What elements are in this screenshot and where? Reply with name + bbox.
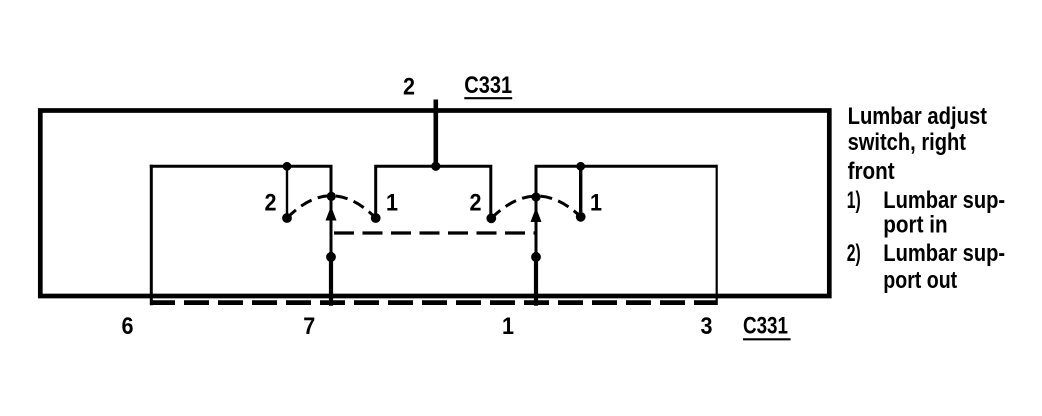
svg-text:2: 2: [403, 73, 415, 100]
svg-text:C331: C331: [743, 312, 788, 339]
pin 7 wire lower stub (thick): [329, 252, 333, 306]
wire segment A: base top-left to wiper 1, turning down as wiper 1 wire (pin 7): [150, 166, 331, 253]
connector C331 interface line (dashed bottom of base): [150, 300, 717, 305]
pin 1 wire lower stub (thick): [534, 252, 538, 306]
underline of C331 (top): [464, 97, 512, 99]
svg-text:2: 2: [265, 189, 277, 216]
junction dot: pin 2 wire on segment B: [431, 162, 440, 171]
contact 2 terminal dot (section 1): [282, 213, 292, 223]
svg-text:Lumbar adjust: Lumbar adjust: [848, 102, 987, 129]
svg-text:front: front: [848, 157, 895, 184]
svg-text:Lumbar sup-: Lumbar sup-: [883, 239, 1005, 266]
wire segment B: contact 1 (section 1) to contact 2 (section 2): [376, 166, 491, 214]
contact 1 terminal dot (section 2): [576, 212, 586, 222]
svg-text:6: 6: [122, 312, 134, 339]
contact 2 terminal dot (section 2): [486, 213, 496, 223]
svg-text:3: 3: [701, 312, 713, 339]
contact 2 stub (section 1): [286, 166, 288, 213]
switch base left edge / pin 6 wire: [150, 165, 153, 305]
svg-text:1: 1: [386, 189, 398, 216]
underline of C331 (bottom): [743, 338, 791, 340]
wiper contact arc (section 2, dashed): [491, 196, 580, 218]
wiper arrow (section 1): [326, 206, 337, 221]
svg-text:2): 2): [847, 239, 861, 266]
svg-text:1: 1: [590, 189, 602, 216]
svg-text:1: 1: [502, 312, 514, 339]
junction dot on pin 1 wire: [531, 252, 541, 262]
mechanical link between wipers (dashed): [334, 231, 536, 234]
wiper pivot dot (section 2): [531, 192, 540, 201]
wire segment C: wiper 2 top to base top-right, wiper 2 wire down (pin 1): [536, 166, 717, 253]
svg-text:C331: C331: [464, 71, 512, 98]
switch base right edge / pin 3 wire: [716, 165, 718, 305]
svg-text:port out: port out: [883, 266, 957, 293]
junction dot on pin 7 wire: [326, 252, 336, 262]
svg-text:port in: port in: [883, 210, 947, 237]
switch housing box (Lumbar adjust switch, right front): [40, 111, 829, 297]
svg-text:switch, right: switch, right: [848, 128, 966, 155]
svg-text:7: 7: [303, 312, 315, 339]
pin 2 wire (top, to connector C331): [433, 100, 438, 167]
wiper contact arc (section 1, dashed): [287, 196, 376, 218]
svg-text:2: 2: [470, 189, 482, 216]
svg-text:1): 1): [847, 186, 861, 213]
wiper pivot dot (section 1): [327, 192, 336, 201]
junction dot: contact-1 stub on segment C: [576, 162, 585, 171]
contact 1 terminal dot (section 1): [371, 213, 381, 223]
wiper arrow (section 2): [531, 208, 542, 223]
junction dot: contact-2 stub on segment A: [283, 162, 292, 171]
contact 1 stub (section 2): [579, 166, 582, 212]
